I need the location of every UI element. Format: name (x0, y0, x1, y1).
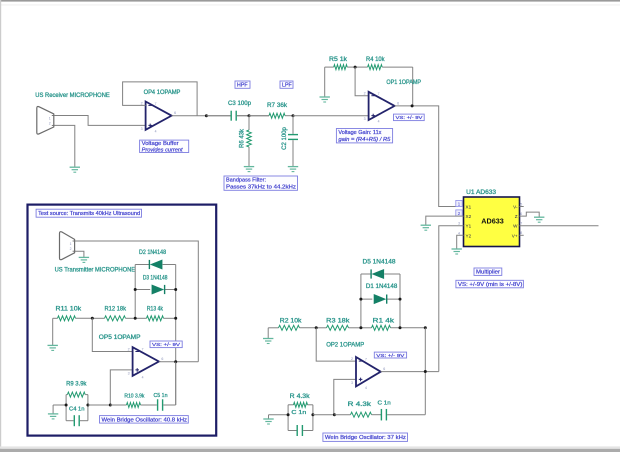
annotation: LPF (280, 81, 293, 89)
capacitor C3 100p (206, 111, 249, 121)
svg-text:R13 4k: R13 4k (147, 307, 164, 313)
wire OP2 output (381, 371, 439, 373)
junction R3/R1 (359, 326, 362, 329)
annotation: Multiplier (474, 268, 502, 276)
wire Z pin to ground (520, 212, 540, 217)
junction output OP4 (205, 114, 208, 117)
multiplier U1 AD633 (464, 197, 520, 247)
svg-text:X2: X2 (466, 214, 472, 219)
wire R7 to OP1 + input (293, 115, 369, 117)
ground (bottom right osc) (263, 415, 273, 424)
svg-text:3: 3 (351, 381, 353, 385)
wire Y2 to ground (457, 235, 464, 249)
resistor R5 1k (325, 65, 355, 70)
junction D3 right (174, 288, 177, 291)
junction R2/R3 (315, 326, 318, 329)
svg-text:6: 6 (383, 367, 385, 371)
svg-text:7: 7 (378, 92, 380, 96)
microphone TX (US Transmitter MICROPHONE) (60, 232, 76, 260)
wire R5/R4 junction down to OP1 - input (355, 67, 369, 96)
svg-text:4: 4 (365, 386, 367, 390)
svg-text:V+: V+ (512, 233, 518, 238)
junction D1 right (399, 298, 402, 301)
wire RC loop left vertical (right osc) (287, 405, 289, 431)
wire loop to R series (313, 414, 335, 416)
svg-text:Wein Bridge Oscillator: 37 kHz: Wein Bridge Oscillator: 37 kHz (325, 435, 406, 441)
junction D3 left (134, 288, 137, 291)
svg-text:Wein Bridge Oscillator: 40.8 k: Wein Bridge Oscillator: 40.8 kHz (102, 417, 188, 423)
junction OP2 output (424, 370, 427, 373)
svg-text:gain = (R4+R5) / R5: gain = (R4+R5) / R5 (338, 137, 391, 143)
wire TX mic top pin to OP5 output net (75, 241, 199, 362)
ground (C2) (288, 167, 298, 172)
svg-text:Y1: Y1 (466, 224, 472, 229)
svg-text:2: 2 (141, 101, 143, 105)
svg-text:R12 18k: R12 18k (105, 307, 127, 313)
resistor R 4.3k (loop) (288, 402, 313, 407)
junction R13 right (174, 317, 177, 320)
resistor R9 3.9k (66, 392, 88, 397)
ground (R11) (48, 345, 58, 350)
resistor R2 10k (268, 325, 316, 330)
svg-text:R 4.3k: R 4.3k (348, 402, 373, 408)
wire RC loop right vertical (87, 395, 89, 421)
resistor R 4.3k (series) (334, 412, 381, 417)
svg-text:2: 2 (128, 348, 130, 352)
svg-text:R10 3.9k: R10 3.9k (124, 394, 144, 400)
svg-text:Bandpass Filter:: Bandpass Filter: (226, 178, 266, 184)
resistor R7 36k (249, 113, 293, 118)
svg-text:Voltage Buffer: Voltage Buffer (142, 141, 179, 147)
svg-text:LPF: LPF (282, 83, 292, 89)
svg-text:D5 1N4148: D5 1N4148 (363, 260, 397, 266)
wire bottom row ground (right osc) (269, 414, 289, 416)
ground (R5) (320, 67, 330, 102)
wire OP1 output to AD633 X1 (395, 106, 456, 207)
annotation: test source (36, 209, 141, 217)
junction R11/R12 (91, 317, 94, 320)
wire C3 to R7 (237, 115, 269, 117)
diode D3 1N4148 (152, 285, 165, 294)
svg-text:Voltage Gain: 11x: Voltage Gain: 11x (338, 130, 381, 136)
ground (mic RX) (70, 167, 80, 172)
wire mic RX bottom pin to ground (54, 125, 75, 167)
svg-text:R6 43k: R6 43k (240, 128, 246, 148)
junction D1 left (359, 298, 362, 301)
svg-text:7: 7 (142, 348, 144, 352)
op-amp OP1 (364, 92, 400, 124)
svg-text:7: 7 (365, 357, 367, 361)
svg-text:4: 4 (378, 120, 380, 124)
wire RC loop right vertical (right osc) (312, 405, 314, 431)
svg-text:1: 1 (49, 116, 51, 120)
ground (R2) (263, 339, 273, 344)
svg-text:HPF: HPF (237, 83, 248, 89)
svg-text:C4 1n: C4 1n (69, 406, 85, 412)
wire OP4 output to C3 (172, 115, 231, 117)
wire R4 down to OP1 output (412, 67, 414, 106)
junction loop left (65, 404, 68, 407)
svg-text:3: 3 (128, 371, 130, 375)
wire C5 to output vertical (175, 362, 177, 405)
svg-text:3: 3 (458, 222, 460, 226)
svg-text:3: 3 (364, 117, 366, 121)
capacitor C 1n (series) (381, 409, 426, 421)
op-amp OP5 (128, 347, 164, 379)
resistor R3 18k (316, 325, 361, 330)
resistor R12 18k (92, 316, 135, 321)
diode D2 1N4148 (149, 260, 162, 269)
svg-text:C 1n: C 1n (291, 410, 306, 416)
wire RC loop left vertical (65, 395, 67, 421)
resistor R11 10k (53, 316, 93, 321)
svg-text:VS: +/- 9V: VS: +/- 9V (376, 353, 405, 359)
svg-text:6: 6 (174, 111, 176, 115)
svg-text:VS: +/- 9V: VS: +/- 9V (152, 342, 181, 348)
svg-text:US Receiver MICROPHONE: US Receiver MICROPHONE (35, 93, 110, 99)
wire D2 leads (135, 264, 176, 266)
svg-text:OP5 1OPAMP: OP5 1OPAMP (99, 335, 141, 341)
svg-text:VS: +/- 9V: VS: +/- 9V (396, 115, 424, 121)
wire OP2 - input (316, 328, 356, 361)
wire OP5 - input (92, 318, 132, 351)
ground (Y2) (452, 249, 462, 254)
wire diode loop right vertical (right osc) (399, 274, 401, 328)
svg-text:US Transmitter MICROPHONE: US Transmitter MICROPHONE (55, 268, 136, 274)
wire bottom row ground to loop (53, 404, 66, 406)
wire OP4 feedback loop (123, 82, 198, 116)
wire OP5 + input (110, 370, 132, 405)
svg-text:3: 3 (141, 127, 143, 131)
svg-text:C 1n: C 1n (378, 400, 391, 406)
ground (mic TX) (79, 257, 89, 262)
svg-text:4: 4 (142, 375, 144, 379)
svg-text:D2 1N4148: D2 1N4148 (139, 250, 167, 256)
wire diode loop left vertical (right osc) (360, 274, 362, 328)
capacitor C5 1n (157, 399, 176, 411)
wire TX mic bottom pin to ground (75, 251, 84, 257)
svg-text:V-: V- (513, 205, 518, 210)
annotation: VS OP2 (374, 352, 406, 359)
annotation: Voltage Buffer (140, 140, 189, 153)
svg-text:R1 4k: R1 4k (373, 318, 396, 324)
wire mic RX top pin to OP4 - input (54, 116, 146, 126)
diode D5 1N4148 (371, 269, 384, 278)
pin 2 box (X2) (456, 210, 462, 217)
annotation: wein bridge 40.8 (100, 416, 189, 424)
svg-text:R7 36k: R7 36k (267, 103, 288, 109)
svg-text:6: 6 (161, 357, 163, 361)
svg-text:2: 2 (351, 357, 353, 361)
wire D3 leads (135, 289, 176, 291)
wire OP5 output (159, 361, 198, 363)
op-amp OP2 (351, 357, 385, 390)
svg-text:Z: Z (515, 214, 518, 219)
svg-text:C5 1n: C5 1n (154, 393, 168, 399)
svg-text:R5 1k: R5 1k (329, 57, 348, 63)
svg-text:W: W (513, 224, 518, 229)
annotation: voltage gain (336, 129, 392, 144)
annotation: VS OP5 (150, 341, 182, 348)
wire R2 to ground (267, 328, 269, 339)
annotation: HPF (235, 81, 250, 89)
ground (R6) (244, 167, 254, 172)
svg-text:1: 1 (70, 242, 72, 246)
wire R11 to ground (52, 318, 54, 345)
svg-text:OP4 1OPAMP: OP4 1OPAMP (144, 90, 181, 96)
wire loop to R10 (88, 404, 110, 406)
svg-text:R9 3.9k: R9 3.9k (66, 381, 87, 387)
junction R12/R13 (134, 317, 137, 320)
annotation: VS OP1 (394, 114, 425, 121)
svg-text:2: 2 (70, 247, 72, 251)
capacitor C4 1n (66, 415, 88, 426)
wire W output (520, 225, 599, 227)
wire X2 to ground (426, 216, 464, 225)
svg-text:Test source: Transmits 40kHz U: Test source: Transmits 40kHz Ultrasound (38, 211, 140, 217)
svg-text:6: 6 (520, 212, 522, 216)
svg-text:Y2: Y2 (466, 233, 472, 238)
svg-text:VS: +/-9V (min is +/-8V): VS: +/-9V (min is +/-8V) (458, 282, 523, 288)
svg-text:6: 6 (397, 101, 399, 105)
svg-text:OP1 1OPAMP: OP1 1OPAMP (386, 80, 421, 86)
svg-text:4: 4 (155, 129, 157, 133)
svg-text:R 4.3k: R 4.3k (290, 394, 311, 400)
resistor R4 10k (355, 65, 413, 70)
ground (C4 row) (48, 405, 58, 419)
wire D1 leads (361, 298, 400, 300)
ground (Z pin) (534, 217, 544, 222)
annotation: VS U1 (456, 280, 524, 288)
resistor R6 43k (247, 116, 252, 167)
junction loop right (right osc) (311, 413, 314, 416)
wire Y1 from OP2 output (439, 226, 464, 372)
wire diode loop left vertical (134, 265, 136, 319)
svg-text:D1 1N4148: D1 1N4148 (366, 284, 398, 290)
junction OP1 output / feedback (411, 104, 414, 107)
junction loop right (86, 404, 89, 407)
wire D5 leads (361, 273, 400, 275)
annotation: wein bridge 37 (323, 433, 408, 441)
svg-text:C3 100p: C3 100p (228, 101, 252, 107)
svg-text:1: 1 (458, 202, 461, 208)
svg-text:8: 8 (520, 231, 522, 235)
svg-text:R4 10k: R4 10k (366, 57, 385, 63)
junction OP2 + branch (333, 413, 336, 416)
wire OP2 + input (334, 379, 356, 414)
svg-text:Passes 37kHz to 44.2kHz: Passes 37kHz to 44.2kHz (226, 185, 296, 191)
op-amp OP4 (141, 101, 177, 133)
capacitor C 1n (loop) (288, 425, 313, 436)
pin 8 stub (V+) (520, 234, 524, 236)
svg-text:2: 2 (364, 92, 366, 96)
annotation: bandpass filter (224, 176, 298, 191)
diode D1 1N4148 (374, 295, 387, 304)
resistor R13 4k (135, 316, 176, 321)
junction OP5 output (174, 360, 177, 363)
junction C3/R6 (248, 114, 251, 117)
junction OP5 + input branch (109, 404, 112, 407)
svg-text:OP2 1OPAMP: OP2 1OPAMP (326, 343, 364, 349)
svg-text:U1 AD633: U1 AD633 (466, 190, 497, 196)
svg-text:X1: X1 (466, 205, 472, 210)
svg-text:4: 4 (458, 231, 460, 235)
svg-text:D3 1N4148: D3 1N4148 (143, 276, 168, 282)
svg-text:C2 100p: C2 100p (282, 126, 288, 149)
resistor R10 3.9k (110, 403, 156, 408)
svg-text:AD633: AD633 (481, 217, 504, 226)
pin 5 stub (V-) (520, 206, 524, 208)
resistor R1 4k (361, 325, 425, 330)
svg-text:7: 7 (520, 222, 522, 226)
junction R1/loop right (399, 326, 402, 329)
junction R7/C2 (292, 114, 295, 117)
test source enclosure box (28, 205, 217, 436)
junction R5/R4 (354, 66, 357, 69)
svg-text:7: 7 (155, 102, 157, 106)
pin 1 box (X1) (456, 200, 462, 207)
svg-text:Multiplier: Multiplier (476, 270, 500, 276)
wire diode loop right vertical (175, 265, 177, 406)
svg-text:Provides current: Provides current (142, 147, 183, 153)
wire feedback vertical right osc (424, 328, 426, 415)
ground (X2) (421, 225, 431, 230)
junction loop left (right osc) (287, 413, 290, 416)
svg-text:R3 18k: R3 18k (326, 318, 350, 324)
microphone RX (US Receiver MICROPHONE) (37, 107, 55, 135)
junction R1 right end (424, 326, 427, 329)
svg-text:5: 5 (520, 202, 522, 206)
svg-text:R2 10k: R2 10k (280, 318, 303, 324)
capacitor C2 100p (288, 116, 298, 167)
svg-text:R11 10k: R11 10k (56, 307, 83, 313)
svg-text:2: 2 (49, 121, 51, 125)
